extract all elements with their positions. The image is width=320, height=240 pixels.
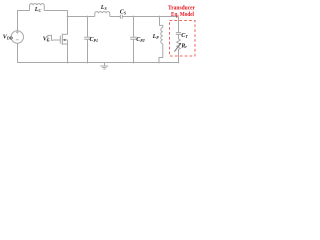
junction LP top: [159, 16, 161, 18]
capacitor CT: [176, 17, 181, 40]
svg-text:CT: CT: [181, 33, 188, 39]
junction CP1 top: [87, 16, 89, 18]
svg-text:LC: LC: [34, 7, 42, 13]
svg-text:CP2: CP2: [136, 37, 144, 43]
svg-text:CS: CS: [120, 10, 127, 16]
svg-text:VDD: VDD: [3, 35, 13, 41]
wire drain vertical: [67, 11, 69, 35]
capacitor CP1: [84, 17, 91, 63]
voltage source VDD: [11, 31, 23, 43]
svg-text:LP: LP: [152, 34, 160, 40]
node junction drain: [67, 16, 69, 18]
wire LS to CS: [110, 16, 120, 18]
wire choke to drain: [44, 10, 67, 12]
junction CP1 bottom: [87, 62, 89, 64]
junction LP bottom: [158, 62, 160, 64]
junction CT bottom: [178, 62, 180, 64]
inductor LP: [159, 17, 163, 63]
transistor M1 body arrow: [63, 39, 66, 41]
junction CP2 bottom: [133, 62, 135, 64]
inductor LS: [95, 12, 110, 17]
svg-text:Eq. Model: Eq. Model: [171, 12, 194, 18]
wire bottom rail: [17, 62, 178, 64]
transistor M1: [53, 34, 67, 45]
wire CS to box: [122, 16, 178, 18]
wire source to bottom rail: [67, 44, 69, 63]
resistor Rr variable: [174, 39, 180, 63]
resistor Rr arrow head: [179, 43, 182, 45]
gate pulse source VG: [47, 35, 54, 40]
capacitor CS: [120, 15, 122, 19]
svg-text:CP1: CP1: [90, 37, 98, 43]
wire node to LS: [68, 16, 95, 18]
inductor LC: [30, 4, 45, 11]
svg-text:Transducer: Transducer: [168, 6, 195, 12]
wire VDD bottom: [17, 43, 19, 62]
junction CP2 top: [133, 16, 135, 18]
junction source bottom: [67, 62, 69, 64]
wire VDD top to choke: [18, 11, 30, 31]
svg-text:LS: LS: [100, 5, 108, 11]
svg-text:VG: VG: [43, 37, 50, 43]
capacitor CP2: [130, 17, 137, 63]
svg-text:Rr: Rr: [180, 43, 187, 49]
transducer box: [170, 21, 196, 57]
ground: [100, 63, 108, 70]
